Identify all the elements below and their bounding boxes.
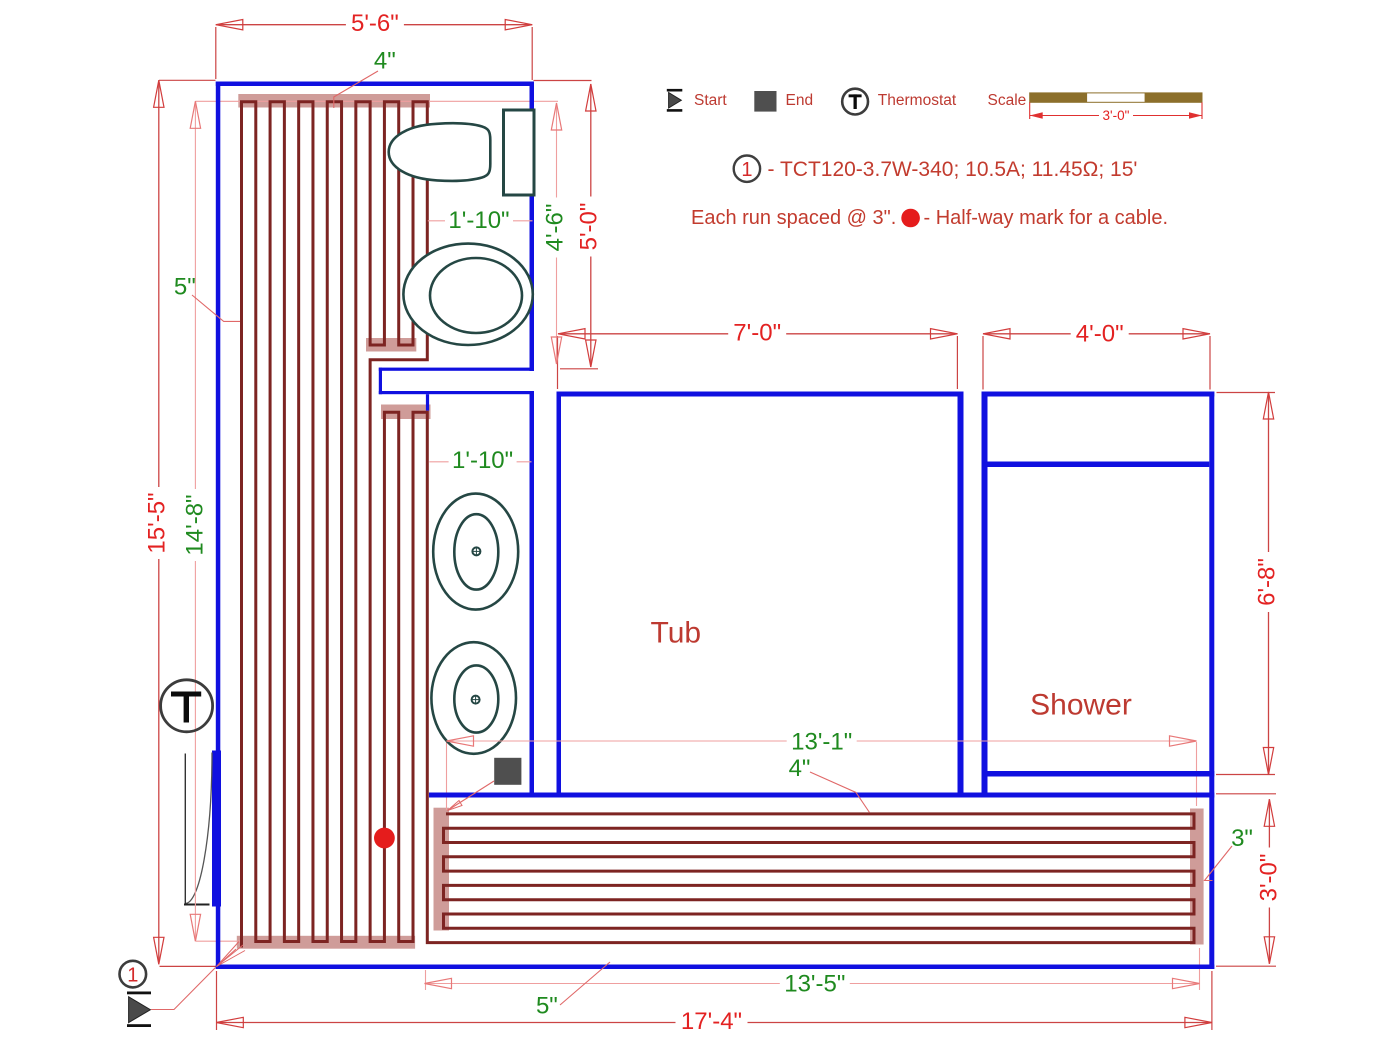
leader for left 5 inch label [192,295,240,321]
dimension 3'-0" bottom arrow [1264,937,1274,964]
dimension 7'-0" text [728,322,786,344]
wall channel lower line [379,391,534,394]
sink 2 inner basin [454,665,498,732]
dimension 5'-0" text [578,197,600,257]
dimension 13'-5" text [780,974,850,995]
extension line left of 7'-0" [557,336,559,389]
round fixture inner bowl [430,258,522,333]
leader from end marker to cable end [449,781,494,810]
dimension 4'-6" top arrow [551,103,561,130]
dimension 17'-4" text [676,1011,748,1033]
dimension 5'-0" line [590,84,592,367]
dimension 5'-0" top arrow [586,84,596,111]
legend end square [754,91,776,112]
sink 1 drain [472,547,480,555]
dimension 15'-5" bottom arrow [154,937,164,964]
half-way mark red dot [374,828,395,849]
dimension 5'-0" bottom arrow [586,340,596,367]
extension line top (14'-8" / 4'-6") [195,100,558,102]
extension line top of 3'-0" [1216,793,1276,795]
svg-text:3'-0": 3'-0" [1103,108,1130,123]
dimension 5'-6" left arrow [216,20,243,30]
dimension 13'-5" right arrow [1173,978,1200,988]
extension line right of 17'-4" [1211,971,1213,1030]
scale bar dimension 3'-0" [1029,102,1031,119]
svg-text:5": 5" [536,993,558,1020]
svg-text:13'-1": 13'-1" [791,729,852,756]
svg-text:3": 3" [1231,825,1253,852]
dimension 3'-0" text [1258,848,1280,908]
start symbol bottom-left [127,992,151,995]
dimension 17'-4" line [216,1022,1212,1024]
sink 1 inner basin [454,514,498,589]
extension line right of 5'-6" [531,27,533,80]
wall channel upper line [379,368,534,371]
wall channel left cap [379,368,382,395]
note circled 1 [734,156,760,182]
dimension 3'-0" line [1268,799,1270,964]
dimension 5'-6" line [216,24,532,26]
dimension 15'-5" line [158,80,160,964]
dimension 4'-0" text [1071,323,1129,345]
svg-text:1'-10": 1'-10" [448,207,509,234]
dimension 5'-6" text [346,13,404,35]
svg-text:1: 1 [127,965,138,987]
extension line left of 4'-0" [982,336,984,390]
svg-text:Scale: Scale [988,92,1027,109]
svg-text:5'-6": 5'-6" [351,10,399,37]
shower curb line [988,462,1210,468]
wall top outer [216,82,534,87]
dimension 13'-1" text [787,732,857,753]
dimension 13'-1" line [447,740,1197,742]
legend start symbol [667,89,683,92]
sink 2 drain [472,696,480,704]
svg-text:Shower: Shower [1030,689,1132,722]
dimension 3'-0" top arrow [1264,799,1274,826]
dimension 1'-10" vanity text [449,450,517,471]
note half-way red dot [901,209,920,228]
extension line left of 5'-6" [215,27,217,79]
door swing arc [185,753,212,904]
svg-text:3'-0": 3'-0" [1256,854,1283,902]
dimension 4'-6" line [556,103,558,364]
leader fan to cable start corner [217,942,240,967]
leader for bottom 4 inch label [810,772,870,813]
leader from start symbol to cable start [151,968,216,1010]
wall right of vanity lower [530,391,535,798]
svg-text:- Half-way mark for a cable.: - Half-way mark for a cable. [924,207,1169,229]
leader for bottom 5 inch label [560,962,610,1005]
extension line left of 17'-4" [216,971,218,1030]
leader for 3 inch label [1205,846,1233,881]
dimension 14'-8" text [184,489,206,561]
dimension 4'-0" line [983,333,1210,335]
round fixture (toilet/bidet) outer rim [403,244,532,345]
svg-text:6'-8": 6'-8" [1254,558,1281,606]
svg-text:4": 4" [374,47,396,74]
legend thermostat symbol [842,89,868,115]
svg-text:4": 4" [789,755,811,782]
extension line top of 15'-5" [159,79,216,81]
dimension 6'-8" bottom arrow [1263,748,1273,775]
dimension 6'-8" text [1256,552,1278,612]
dimension 15'-5" text [146,487,168,559]
dimension 13'-5" left arrow [425,978,452,988]
svg-text:1'-10": 1'-10" [452,447,513,474]
cable highlight strip top-left room [238,94,430,108]
dimension 1'-10" upper text [445,210,513,231]
svg-text:Thermostat: Thermostat [878,92,957,109]
svg-text:17'-4": 17'-4" [681,1008,742,1035]
end marker square on plan [494,758,521,785]
thermostat symbol on plan [161,680,213,732]
extension line right of 13'-1" [1196,742,1198,806]
svg-text:4'-6": 4'-6" [541,204,568,252]
leader for top 4 inch label [334,71,378,108]
svg-text:4'-0": 4'-0" [1076,321,1124,348]
dimension 13'-1" right arrow [1170,736,1197,746]
dimension 1'-10" vanity line [429,461,531,463]
dimension 4'-0" right arrow [1183,329,1210,339]
svg-text:15'-5": 15'-5" [144,492,171,553]
dimension 17'-4" left arrow [216,1017,243,1027]
sink 2 outer rim [431,642,516,754]
dimension 1'-10" upper line [428,220,533,222]
dimension 7'-0" left arrow [558,329,585,339]
cable highlight strip vanity top [381,405,431,420]
extension line bottom of 6'-8" [1216,774,1275,776]
wall tub right [958,392,964,798]
wall bottom outer [216,965,1215,970]
wall shower bottom [982,771,1215,777]
dimension 4'-6" text [544,198,566,258]
door leaf line [184,754,186,904]
extension line top of 5'-0" [534,80,592,82]
dimension 6'-8" line [1268,392,1270,775]
dimension 14'-8" bottom arrow [190,914,200,941]
scale bar text 3'-0" [1099,110,1133,122]
circled 1 marker bottom-left [120,961,147,988]
dimension 13'-5" line [425,983,1200,985]
svg-text:7'-0": 7'-0" [733,320,781,347]
wall shower right / plan right edge [1209,392,1214,970]
extension line bottom of 3'-0" [1216,965,1276,967]
cable highlight strip bottom of left room [237,936,415,949]
extension line bottom of 5'-0" [560,368,598,370]
svg-text:5": 5" [174,274,196,301]
door jamb thickened wall [212,751,221,907]
dimension 14'-8" line [194,101,196,941]
heating cable serpentine (single continuous run) [242,102,1195,948]
wall left outer [216,82,221,970]
toilet bowl [389,123,491,181]
wall top of bottom heated strip [429,793,1214,798]
wall shower left [982,392,988,798]
dimension 6'-8" top arrow [1263,392,1273,419]
svg-text:Start: Start [694,92,727,109]
dimension 4'-6" bottom arrow [551,337,561,364]
sink 1 outer rim [433,494,518,610]
cable highlight strip under toilet nook [366,338,416,352]
door base line [184,904,210,906]
wall shower top [982,392,1215,397]
wall right of toilet room upper [530,82,535,372]
svg-text:- TCT120-3.7W-340; 10.5A; 11.4: - TCT120-3.7W-340; 10.5A; 11.45Ω; 15' [768,158,1138,181]
dimension 4'-0" left arrow [983,329,1010,339]
svg-text:14'-8": 14'-8" [181,494,208,555]
svg-text:End: End [786,92,814,109]
svg-text:13'-5": 13'-5" [784,971,845,998]
svg-text:1: 1 [741,159,752,181]
scale bar [1030,93,1202,102]
extension line left of 13'-5" [425,970,427,990]
cable highlight strip bottom-run right turns [1190,809,1204,945]
wall tub top [557,392,964,397]
dimension 17'-4" right arrow [1185,1017,1212,1027]
svg-text:5'-0": 5'-0" [575,203,602,251]
dimension 15'-5" top arrow [154,80,164,107]
dimension 7'-0" right arrow [931,329,958,339]
extension line bottom of 15'-5" [160,965,217,967]
extension line top of 6'-8" [1217,392,1276,394]
extension line right of 4'-0" [1209,336,1211,390]
extension line bottom of 14'-8" [196,940,241,942]
dimension 7'-0" line [558,333,958,335]
extension line left of 13'-1" [446,742,448,810]
cable highlight strip bottom-run left turns [434,808,450,931]
dimension 14'-8" top arrow [190,101,200,128]
toilet tank [504,110,535,195]
svg-text:Each run spaced @ 3".: Each run spaced @ 3". [691,207,896,229]
wall stub at vanity left [426,394,429,411]
extension line right of 13'-5" [1199,948,1201,990]
dimension 13'-1" left arrow [447,736,474,746]
svg-text:Tub: Tub [651,616,702,649]
dimension 5'-6" right arrow [505,20,532,30]
wall tub left [557,392,562,798]
extension line right of 7'-0" [956,336,958,389]
